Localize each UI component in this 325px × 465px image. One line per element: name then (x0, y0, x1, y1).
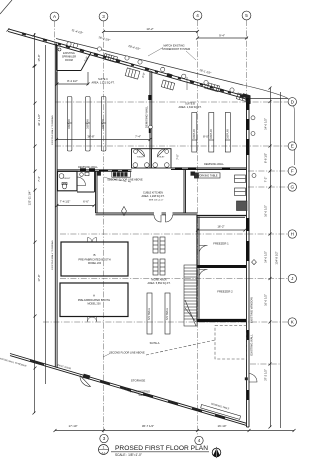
svg-text:PRE-FABRICATED BOOTH: PRE-FABRICATED BOOTH (78, 298, 110, 302)
svg-text:8'-8 1/2": 8'-8 1/2" (264, 153, 268, 163)
svg-text:7'-4 1/2": 7'-4 1/2" (60, 200, 71, 204)
svg-text:EXISTING WALL TO REMAIN: EXISTING WALL TO REMAIN (51, 115, 54, 145)
svg-text:WORKING TABLE: WORKING TABLE (197, 175, 218, 178)
svg-text:6'-6": 6'-6" (83, 200, 89, 204)
svg-text:AREA: 1,208 SQ.FT.: AREA: 1,208 SQ.FT. (142, 195, 165, 198)
svg-text:E: E (291, 144, 294, 149)
svg-text:S/S TABLE: S/S TABLE (148, 308, 151, 320)
svg-text:MODEL 200: MODEL 200 (87, 303, 101, 306)
svg-text:134'-8 1/2": 134'-8 1/2" (275, 251, 279, 264)
svg-text:125'-11 1/4": 125'-11 1/4" (28, 191, 32, 206)
svg-text:G: G (291, 185, 295, 190)
svg-text:AREA: 5,852 SQ.FT.: AREA: 5,852 SQ.FT. (148, 282, 171, 285)
svg-text:FREEZER 1: FREEZER 1 (213, 242, 229, 246)
svg-text:DISPLAY: DISPLAY (86, 119, 89, 129)
svg-text:17'-10": 17'-10" (69, 424, 78, 428)
svg-text:9'-4": 9'-4" (219, 34, 225, 38)
svg-text:EXISTING: EXISTING (63, 52, 75, 55)
svg-text:SUITE B: SUITE B (185, 103, 195, 106)
svg-text:14'-6 1/2": 14'-6 1/2" (264, 251, 268, 263)
svg-text:DISPLAY: DISPLAY (102, 119, 105, 129)
svg-text:DISPLAY: DISPLAY (226, 129, 229, 139)
svg-text:36'-7 1/2": 36'-7 1/2" (142, 424, 154, 428)
svg-text:TOILET: TOILET (157, 157, 165, 159)
svg-text:7'-2": 7'-2" (264, 177, 268, 183)
svg-text:AREA: 1,342 SQ.FT.: AREA: 1,342 SQ.FT. (179, 106, 202, 109)
svg-text:SUITE C: SUITE C (98, 78, 108, 81)
svg-text:CUBLE KITCHEN: CUBLE KITCHEN (143, 192, 163, 195)
svg-text:1: 1 (103, 446, 105, 450)
svg-text:STORAGE: STORAGE (131, 379, 146, 383)
svg-text:SECOND FLOOR LINE ABOVE: SECOND FLOOR LINE ABOVE (107, 179, 143, 182)
svg-text:A-1: A-1 (101, 451, 106, 455)
svg-text:36'-8": 36'-8" (87, 134, 94, 138)
svg-text:DISPLAY: DISPLAY (210, 129, 213, 139)
svg-text:F: F (291, 169, 294, 174)
svg-text:STOREFRONT SYSTEM: STOREFRONT SYSTEM (162, 48, 190, 51)
svg-text:H: H (291, 232, 294, 237)
svg-text:MODEL 200: MODEL 200 (88, 262, 102, 265)
svg-text:SECOND FLOOR LINE ABOVE: SECOND FLOOR LINE ABOVE (109, 352, 145, 355)
svg-text:5: 5 (245, 13, 248, 18)
svg-text:EXISTING WINDOW: EXISTING WINDOW (250, 297, 254, 323)
svg-text:PRE-FABRICATED BOOTH: PRE-FABRICATED BOOTH (78, 258, 110, 262)
svg-text:DEMISING WALL: DEMISING WALL (204, 163, 224, 166)
svg-text:37'-2 1/2": 37'-2 1/2" (264, 369, 268, 381)
svg-text:7'-4": 7'-4" (37, 176, 41, 182)
svg-text:13'-2": 13'-2" (146, 27, 153, 31)
svg-text:DISPLAY: DISPLAY (193, 129, 196, 139)
svg-text:PROSED FIRST FLOOR PLAN: PROSED FIRST FLOOR PLAN (115, 445, 208, 452)
svg-text:4: 4 (196, 13, 199, 18)
svg-text:SCALE : 1/8"=1'-0": SCALE : 1/8"=1'-0" (115, 453, 142, 457)
svg-text:B: B (93, 253, 95, 257)
svg-text:3: 3 (102, 14, 105, 19)
svg-text:ROOM: ROOM (65, 59, 73, 62)
svg-text:DEMISING WALL: DEMISING WALL (145, 105, 149, 128)
svg-text:WORK AREA: WORK AREA (151, 279, 166, 282)
svg-text:36'-1 1/2": 36'-1 1/2" (37, 114, 41, 126)
svg-text:7'-0": 7'-0" (176, 154, 180, 160)
svg-text:J: J (291, 276, 293, 281)
svg-text:3: 3 (103, 436, 106, 441)
svg-text:14'-6 1/2": 14'-6 1/2" (264, 118, 268, 130)
svg-text:TOILET: TOILET (137, 157, 145, 159)
svg-text:WINDOW: WINDOW (139, 394, 151, 397)
svg-text:8'-4 1/2": 8'-4 1/2" (67, 79, 78, 83)
svg-text:SPRINKLER: SPRINKLER (62, 56, 76, 59)
svg-text:EXISTING WALL TO REMAIN: EXISTING WALL TO REMAIN (51, 240, 54, 270)
svg-text:16'-6 1/2": 16'-6 1/2" (264, 294, 268, 306)
svg-text:FREEZER 2: FREEZER 2 (217, 290, 233, 294)
svg-text:4: 4 (198, 438, 201, 443)
svg-text:A: A (93, 294, 95, 298)
svg-text:8'-0": 8'-0" (203, 134, 209, 138)
svg-text:EXISTING WALL: EXISTING WALL (250, 334, 254, 356)
svg-text:SEE 1/4"=1'-0": SEE 1/4"=1'-0" (149, 200, 164, 202)
svg-text:S/S TABLE: S/S TABLE (166, 308, 169, 320)
svg-text:7'-4": 7'-4" (135, 134, 141, 138)
svg-text:SUITE-A: SUITE-A (150, 342, 160, 345)
svg-text:DISPLAY: DISPLAY (68, 119, 71, 129)
svg-text:TOILET: TOILET (63, 178, 71, 180)
svg-text:16'-10": 16'-10" (218, 424, 227, 428)
svg-text:AREA: 1,321 SQ.FT.: AREA: 1,321 SQ.FT. (92, 82, 115, 85)
svg-text:16'-2": 16'-2" (217, 225, 224, 229)
svg-text:17'-8": 17'-8" (37, 274, 41, 281)
svg-text:15'-8": 15'-8" (37, 54, 41, 61)
svg-text:DEMISING WALL: DEMISING WALL (78, 166, 98, 169)
svg-text:16'-6 1/2": 16'-6 1/2" (264, 205, 268, 217)
